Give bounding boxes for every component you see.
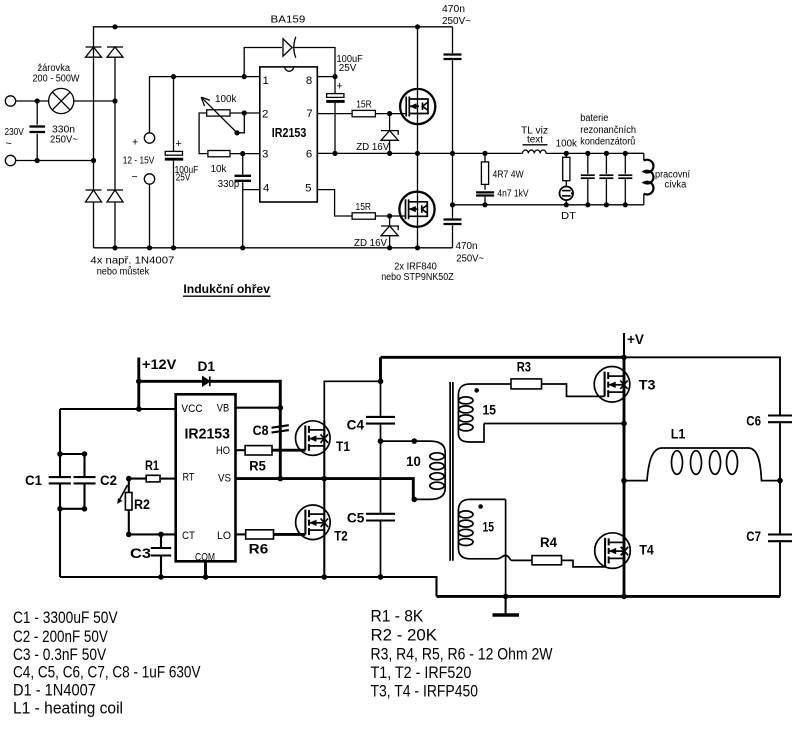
wire bridge left column (93, 57, 95, 190)
wire tank top to coil (625, 152, 644, 154)
wire lamp to bridge (74, 100, 115, 102)
wire +V rail thin to C6 (624, 357, 780, 415)
terminal 12V plus (144, 133, 154, 143)
node VCC line left (136, 406, 142, 412)
resistor 15R lower (352, 213, 375, 219)
node gnd T2 (322, 574, 328, 580)
diode bridge D-top-left (86, 47, 102, 57)
transistor T1 IRF520 (296, 421, 331, 456)
node tank bottom 4n7 (482, 202, 487, 207)
node bridge left column AC tap (91, 158, 96, 163)
svg-text:C4: C4 (347, 418, 365, 433)
wire tank bottom rail (453, 204, 644, 206)
svg-text:+V: +V (627, 332, 644, 347)
capacitor C5 (366, 441, 395, 577)
svg-text:10k: 10k (211, 164, 228, 175)
inductor L1 (624, 448, 780, 481)
svg-text:R3, R4, R5, R6 - 12 Ohm 2W: R3, R4, R5, R6 - 12 Ohm 2W (371, 645, 553, 664)
node 330n bottom (35, 158, 40, 163)
inductor TL on tank line (523, 150, 547, 153)
svg-text:250V~: 250V~ (50, 134, 78, 145)
capacitor C6 (768, 416, 792, 481)
zener ZD 16V upper (381, 114, 398, 154)
node T3 source (621, 421, 627, 427)
capacitor C4 (366, 381, 395, 441)
wire top DC+ rail (94, 27, 453, 57)
node VB line 100uF boot (332, 74, 337, 79)
wire to primary top (381, 440, 415, 442)
svg-text:15: 15 (483, 520, 495, 535)
svg-text:T4: T4 (639, 542, 654, 557)
svg-text:CT: CT (182, 530, 195, 542)
wire C1-C2 tie bottom (60, 508, 85, 510)
terminal 12V minus (144, 174, 154, 184)
svg-text:C2 - 200nF 50V: C2 - 200nF 50V (13, 627, 108, 646)
node RT R1 R2 (126, 476, 132, 482)
node rail bridge right (112, 245, 117, 250)
wire pin5 jog (317, 190, 352, 216)
svg-text:C1 - 3300uF 50V: C1 - 3300uF 50V (13, 608, 118, 627)
svg-text:C3 - 0.3nF 50V: C3 - 0.3nF 50V (13, 645, 106, 664)
node gnd C3 (158, 574, 164, 580)
label Indukční ohřev (183, 282, 271, 296)
capacitor C7 (768, 481, 792, 597)
capacitor C1 (49, 409, 71, 577)
svg-text:T3: T3 (639, 378, 656, 393)
svg-text:7: 7 (306, 108, 312, 120)
wire R3 to T3 gate (542, 384, 605, 396)
resistor 4R7 4W (481, 153, 488, 189)
wire C1-C2 tie top (60, 453, 85, 455)
diode bridge D-bot-left (86, 190, 102, 202)
capacitor 4n7 1kV (476, 192, 494, 204)
node tank bottom left (450, 202, 455, 207)
wire VB pin line (236, 407, 281, 409)
svg-text:6: 6 (306, 149, 312, 161)
wire +V feed vertical (379, 357, 382, 381)
node tank bottom c-bat3 (623, 202, 628, 207)
wire pin4 (243, 189, 260, 191)
wire 12V minus to rail (149, 184, 151, 248)
svg-text:−: − (132, 171, 138, 183)
capacitor bank cap2 (599, 153, 613, 204)
svg-text:IR2153: IR2153 (185, 427, 231, 443)
node 330n top (35, 98, 40, 103)
node VS C8 (278, 476, 284, 482)
wire tank top line (453, 152, 644, 154)
svg-text:Indukční ohřev: Indukční ohřev (183, 282, 270, 296)
wire secondary top return (484, 423, 624, 425)
wire +V rail thick (381, 356, 625, 359)
svg-text:+: + (337, 81, 343, 93)
diode bridge D-top-right (107, 47, 123, 57)
svg-text:T1, T2 - IRF520: T1, T2 - IRF520 (371, 663, 472, 682)
neon lamp DT (560, 187, 574, 205)
wire pin8 (317, 76, 335, 78)
capacitor 100uF 25V bootstrap (326, 77, 344, 154)
svg-text:4: 4 (263, 182, 269, 194)
wire pot left to 10k left (199, 113, 208, 154)
svg-text:T3, T4 - IRFP450: T3, T4 - IRFP450 (371, 682, 479, 701)
lamp žárovka 200-500W (49, 88, 74, 113)
svg-text:2: 2 (262, 108, 268, 120)
svg-text:3: 3 (262, 149, 268, 161)
node tie top C2 (82, 451, 88, 457)
svg-text:C6: C6 (746, 414, 761, 429)
svg-text:12 - 15V: 12 - 15V (123, 155, 155, 166)
svg-text:cívka: cívka (665, 179, 687, 190)
capacitor bank cap1 (581, 153, 595, 204)
svg-text:15: 15 (483, 403, 497, 418)
wire +12V rail (139, 380, 280, 383)
node tank top c-bat1 (585, 151, 590, 156)
svg-text:RT: RT (183, 471, 195, 483)
capacitor C3 (151, 534, 171, 577)
svg-text:470n: 470n (456, 241, 478, 252)
node tank bottom DT (564, 202, 569, 207)
wire 15R to gate upper (375, 113, 406, 115)
svg-text:8: 8 (306, 75, 312, 87)
svg-text:470n: 470n (442, 4, 465, 15)
wire bottom lead to R4 (511, 559, 532, 561)
capacitor C2 (74, 454, 96, 509)
svg-text:LO: LO (217, 530, 231, 542)
node pin2 wiper (242, 110, 247, 115)
resistor R6 (246, 530, 274, 539)
svg-text:330p: 330p (218, 179, 240, 190)
svg-text:T1: T1 (336, 439, 350, 454)
svg-text:250V~: 250V~ (456, 253, 484, 264)
svg-text:25V: 25V (176, 172, 191, 183)
capacitor 470n bottom (444, 153, 462, 247)
winding primary 10 (414, 441, 445, 499)
node tank top 100k (564, 151, 569, 156)
svg-text:BA159: BA159 (271, 14, 306, 25)
capacitor bank cap3 (618, 153, 632, 204)
svg-text:+: + (132, 137, 138, 149)
node VS T1T2 (322, 476, 328, 482)
svg-text:R1: R1 (145, 458, 159, 473)
ground rail top circuit (94, 247, 453, 249)
node CT C3 (158, 532, 164, 538)
potentiometer 100k (201, 97, 244, 135)
node top rail bridge right (112, 24, 117, 29)
node gate lower zener (387, 213, 392, 218)
svg-text:R3: R3 (517, 359, 532, 374)
node VCC line BA159 (242, 74, 247, 79)
transformer core (450, 382, 453, 561)
wire LO pin (236, 533, 246, 535)
node tank bottom c-bat1 (585, 202, 590, 207)
node C4 top (378, 379, 384, 385)
wire pin6 VS line (317, 152, 452, 154)
winding secondary 15 top (458, 384, 484, 442)
trimmer R2 (117, 479, 132, 535)
node pin6 470n divider (450, 151, 455, 156)
svg-text:15R: 15R (356, 202, 372, 213)
svg-text:nebo můstek: nebo můstek (97, 266, 150, 278)
svg-text:~: ~ (6, 138, 12, 150)
node rail zener lower (387, 245, 392, 250)
capacitor 470n top (444, 27, 462, 154)
svg-text:4R7 4W: 4R7 4W (493, 170, 525, 181)
resistor 15R upper (352, 110, 375, 116)
diode bridge D-bot-right (107, 190, 123, 202)
node C4-C5 junction (378, 438, 384, 444)
terminal AC input lower (5, 155, 15, 165)
ground symbol (493, 596, 520, 615)
svg-text:VCC: VCC (181, 403, 202, 415)
node gate upper zener (387, 111, 392, 116)
IC U2 IR2153 box (176, 394, 236, 561)
resistor 100k damp (563, 153, 570, 186)
winding secondary 15 bottom (458, 499, 511, 560)
wire 15R to gate lower (375, 215, 405, 217)
capacitor 330n (30, 101, 46, 161)
wire T1-T2 vertical (323, 421, 325, 577)
svg-text:10: 10 (406, 454, 421, 469)
svg-text:L1 - heating coil: L1 - heating coil (13, 698, 123, 717)
svg-text:L1: L1 (671, 426, 686, 441)
wire R6 to T2 gate (274, 533, 306, 536)
capacitor 330p (235, 154, 252, 248)
wire bridge columns to ground rail (94, 202, 116, 248)
svg-text:25V: 25V (339, 63, 357, 74)
diode D1 1N4007 (203, 376, 210, 386)
svg-text:C3: C3 (130, 546, 152, 561)
node tank bottom c-bat2 (604, 202, 609, 207)
wire pin3 (230, 153, 260, 155)
wire mid vertical T3-T4 (623, 424, 626, 597)
node tank top 4R7 (482, 151, 487, 156)
wire AC lower to bridge (16, 160, 94, 162)
node lamp wire bridge right column (112, 98, 117, 103)
svg-text:D1 - 1N4007: D1 - 1N4007 (13, 681, 96, 700)
node CT R2 (126, 532, 132, 538)
node tank top c-bat2 (604, 151, 609, 156)
wire COM stub (204, 561, 207, 577)
node tie top C1 (57, 451, 63, 457)
svg-text:1: 1 (263, 75, 269, 87)
wire secondary top lead to R3 (478, 383, 511, 385)
svg-text:baterie: baterie (580, 113, 608, 124)
node pin6 zener (387, 151, 392, 156)
supply +V tick (623, 333, 625, 357)
svg-text:4n7 1kV: 4n7 1kV (497, 189, 528, 200)
terminal AC input upper (5, 96, 15, 106)
svg-text:R2 - 20K: R2 - 20K (371, 625, 438, 644)
svg-text:4x např. 1N4007: 4x např. 1N4007 (90, 256, 174, 267)
svg-text:200 - 500W: 200 - 500W (33, 74, 81, 85)
node 12V rail left (136, 379, 142, 385)
diode BA159 (244, 37, 335, 77)
capacitor 100uF 25V supply (165, 77, 183, 248)
node L1 right (777, 478, 783, 484)
svg-text:VS: VS (218, 472, 231, 484)
resistor R4 (532, 556, 562, 565)
wire CT line (129, 533, 176, 535)
node primary bottom (412, 497, 418, 503)
node rail 100uF (171, 245, 176, 250)
supply +12V tick (137, 358, 140, 410)
node L1 left (621, 478, 627, 484)
inductor pracovní cívka (644, 153, 654, 204)
svg-text:R1 - 8K: R1 - 8K (371, 607, 424, 626)
wire VCC line (60, 408, 176, 410)
wire VS line (236, 479, 414, 500)
wire secondary bottom to ground (505, 499, 507, 596)
svg-text:žárovka: žárovka (38, 63, 71, 74)
node rail 330p (240, 245, 245, 250)
node gnd transformer (503, 594, 509, 600)
svg-text:VB: VB (217, 403, 229, 415)
wire R4 to T4 gate (562, 560, 606, 567)
svg-text:text: text (527, 134, 543, 145)
resistor 10k (208, 151, 230, 157)
node rail 12V minus (147, 245, 152, 250)
wire TL underline (523, 144, 548, 146)
wire R5 to T1 gate (272, 449, 306, 452)
node top rail mosfet drain (415, 24, 420, 29)
svg-text:C4, C5, C6, C7, C8 - 1uF 630V: C4, C5, C6, C7, C8 - 1uF 630V (13, 663, 201, 682)
transistor Q-upper IRF840 (400, 27, 435, 154)
capacitor C8 (272, 408, 289, 479)
svg-text:C2: C2 (100, 473, 117, 488)
svg-text:rezonančních: rezonančních (580, 125, 636, 136)
svg-text:R6: R6 (249, 542, 269, 557)
node gnd C5 (378, 574, 384, 580)
resistor R5 (245, 446, 272, 455)
IC U1 IR2153 box (260, 67, 318, 202)
svg-text:C7: C7 (746, 529, 761, 544)
svg-text:D1: D1 (198, 359, 216, 374)
wire AC upper to lamp (16, 100, 49, 102)
node +V rail T3 (621, 355, 627, 361)
svg-text:T2: T2 (334, 529, 348, 544)
node gnd T4 (621, 594, 627, 600)
node tie bottom C2 (82, 506, 88, 512)
node primary top (412, 438, 418, 444)
svg-text:5: 5 (305, 182, 311, 194)
svg-text:C5: C5 (347, 511, 365, 526)
node tank top c-bat3 (623, 151, 628, 156)
svg-text:2x IRF840: 2x IRF840 (394, 262, 437, 273)
node gnd COM (203, 574, 209, 580)
svg-text:230V: 230V (5, 127, 25, 138)
node rail mosfet lower source (415, 245, 420, 250)
wire T3 vertical (623, 357, 626, 423)
wire pin7 HO (317, 113, 352, 115)
svg-text:+12V: +12V (142, 357, 176, 372)
svg-text:100k: 100k (215, 94, 237, 105)
wire rail corner down to VB (279, 380, 282, 408)
svg-text:C8: C8 (253, 423, 269, 438)
svg-text:ZD 16V: ZD 16V (356, 142, 389, 153)
node pin3 330p (240, 151, 245, 156)
transistor T3 IRFP450 (594, 367, 630, 403)
transistor T2 IRF520 (296, 505, 331, 540)
svg-text:+: + (176, 138, 182, 150)
resistor R1 (129, 475, 176, 482)
node pin6 100uF boot bottom (332, 151, 337, 156)
svg-text:nebo STP9NK50Z: nebo STP9NK50Z (381, 272, 454, 283)
zener ZD 16V lower (381, 216, 398, 248)
svg-text:250V~: 250V~ (442, 16, 471, 27)
svg-text:ZD 16V: ZD 16V (354, 238, 387, 249)
node tie bottom C1 (57, 506, 63, 512)
transistor T4 IRFP450 (595, 533, 631, 569)
wire HO pin (236, 449, 246, 451)
svg-text:kondenzátorů: kondenzátorů (580, 136, 635, 148)
ground rail right section (437, 595, 781, 598)
resistor R3 (511, 379, 542, 389)
wire bridge right column (114, 57, 116, 190)
svg-text:R2: R2 (134, 497, 150, 512)
wire T1 drain up (324, 381, 380, 438)
svg-text:R4: R4 (540, 535, 557, 550)
svg-text:15R: 15R (356, 99, 372, 110)
wire 12V plus up to VCC line (150, 77, 260, 133)
transistor Q-lower IRF840 (399, 153, 434, 247)
ground rail left section (60, 577, 437, 596)
svg-text:C1: C1 (25, 473, 42, 488)
svg-text:DT: DT (561, 211, 576, 222)
wire pin2 (230, 112, 260, 114)
node VCC line 100uF (171, 74, 176, 79)
node VB (278, 405, 284, 411)
svg-text:100k: 100k (556, 139, 578, 150)
svg-text:IR2153: IR2153 (272, 126, 307, 140)
svg-text:HO: HO (216, 445, 230, 457)
svg-text:R5: R5 (249, 459, 266, 474)
node pin6 mosfet mid (415, 151, 420, 156)
